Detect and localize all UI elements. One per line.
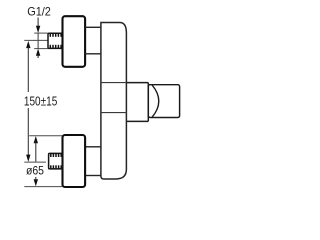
extension line bottom pipe centerline xyxy=(24,161,46,163)
bottom escutcheon xyxy=(63,135,86,187)
valve body xyxy=(101,23,127,180)
top threaded inlet pipe xyxy=(48,33,62,48)
top escutcheon xyxy=(63,16,86,67)
dimension arrow G1/2 bottom (up) xyxy=(36,49,40,58)
handle knob xyxy=(148,85,179,118)
bottom pipe thread hatch xyxy=(51,153,61,169)
bottom threaded inlet pipe xyxy=(49,153,63,169)
svg-text:150±15: 150±15 xyxy=(24,94,57,108)
dimension ø65 xyxy=(34,136,38,186)
bottom union nut lines xyxy=(85,147,101,176)
extension line top pipe centerline (150 dim) xyxy=(24,39,47,41)
extension line escutcheon top (ø65) xyxy=(29,135,62,137)
extension line pipe top xyxy=(34,32,48,34)
extension line escutcheon bottom (ø65) xyxy=(24,186,62,188)
svg-text:ø65: ø65 xyxy=(26,164,44,178)
body seam line upper xyxy=(101,82,127,84)
dimension arrow G1/2 top (down) xyxy=(36,18,40,49)
svg-text:G1/2: G1/2 xyxy=(27,5,51,19)
top union nut lines xyxy=(85,27,101,54)
handle collar xyxy=(126,83,148,122)
body seam line lower xyxy=(101,112,127,114)
knob dome arc xyxy=(152,85,159,117)
dimension line 150±15 xyxy=(26,41,30,162)
top pipe thread hatch xyxy=(50,33,61,48)
extension line pipe bottom xyxy=(34,48,48,50)
